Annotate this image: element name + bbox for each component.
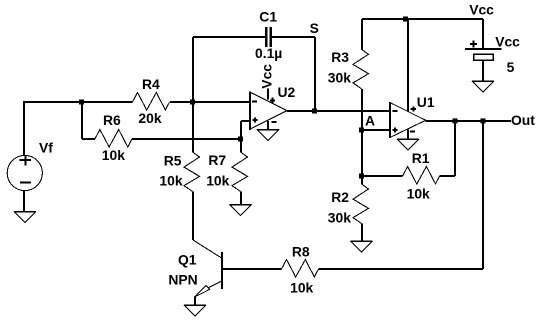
wire <box>23 102 25 156</box>
wire <box>440 121 455 176</box>
capacitor C1 <box>266 27 271 47</box>
ground <box>14 212 36 223</box>
wire <box>271 36 315 38</box>
ground <box>184 305 206 316</box>
wire <box>23 191 25 212</box>
battery V1 Vcc <box>465 48 502 50</box>
svg-text:10k: 10k <box>159 172 182 188</box>
svg-text:Vf: Vf <box>39 140 53 156</box>
wire <box>194 297 196 305</box>
transistor Q1 <box>221 252 223 289</box>
wire <box>82 138 95 140</box>
svg-text:30k: 30k <box>328 70 351 86</box>
wire <box>407 19 409 112</box>
wire <box>267 89 269 100</box>
wire <box>81 102 83 139</box>
wire <box>287 110 390 112</box>
wire <box>426 120 511 122</box>
wire <box>240 139 242 205</box>
wire <box>319 268 484 270</box>
node junction <box>453 118 458 123</box>
resistor R1 <box>403 167 440 185</box>
node junction <box>312 109 317 114</box>
wire <box>208 281 222 288</box>
svg-text:Vcc: Vcc <box>469 1 494 17</box>
wire <box>407 130 409 140</box>
svg-text:C1: C1 <box>259 8 277 24</box>
svg-text:10k: 10k <box>102 147 125 163</box>
svg-text:10k: 10k <box>206 172 229 188</box>
svg-text:R4: R4 <box>142 76 160 92</box>
wire <box>361 224 363 242</box>
wire <box>193 36 266 38</box>
svg-text:Vcc: Vcc <box>495 33 520 49</box>
resistor R7 <box>232 152 248 192</box>
wire <box>192 37 194 152</box>
node junction <box>359 128 364 133</box>
svg-text:Out: Out <box>511 112 535 128</box>
op-amp U1 <box>390 102 426 137</box>
svg-text:R7: R7 <box>208 152 226 168</box>
node junction <box>481 118 486 123</box>
svg-text:R2: R2 <box>331 189 349 205</box>
wire <box>192 192 194 241</box>
svg-text:0.1µ: 0.1µ <box>255 45 282 61</box>
ground <box>230 205 252 216</box>
node junction <box>403 17 408 22</box>
wire <box>241 121 250 139</box>
svg-text:Vcc: Vcc <box>259 64 275 89</box>
svg-text:S: S <box>310 20 319 36</box>
voltage source Vf <box>7 155 42 190</box>
svg-text:R5: R5 <box>164 152 182 168</box>
wire <box>361 89 363 184</box>
svg-text:R3: R3 <box>331 49 349 65</box>
wire <box>482 121 484 269</box>
svg-text:U2: U2 <box>278 84 296 100</box>
resistor R5 <box>184 152 200 192</box>
svg-text:20k: 20k <box>138 110 161 126</box>
ground <box>397 139 419 150</box>
svg-text:A: A <box>365 113 375 129</box>
node junction <box>238 137 243 142</box>
svg-text:10k: 10k <box>407 185 430 201</box>
emitter arrow <box>194 286 210 298</box>
wire <box>362 18 483 20</box>
wire <box>222 268 282 270</box>
svg-text:R8: R8 <box>292 244 310 260</box>
svg-text:NPN: NPN <box>168 272 197 288</box>
ground <box>472 81 494 92</box>
node junction <box>79 100 84 105</box>
wire <box>361 19 363 49</box>
wire <box>23 101 133 103</box>
resistor R2 <box>353 184 369 224</box>
svg-text:30k: 30k <box>328 210 351 226</box>
svg-text:R6: R6 <box>103 112 121 128</box>
ground <box>257 130 279 141</box>
svg-text:10k: 10k <box>290 279 313 295</box>
svg-text:5: 5 <box>507 59 515 75</box>
node junction <box>190 100 195 105</box>
svg-text:Q1: Q1 <box>178 251 197 267</box>
wire <box>362 175 403 177</box>
resistor R6 <box>95 130 132 148</box>
wire <box>193 240 222 258</box>
ground <box>351 241 373 252</box>
wire <box>482 19 484 49</box>
svg-text:U1: U1 <box>417 94 435 110</box>
svg-text:R1: R1 <box>412 150 430 166</box>
wire <box>267 121 269 130</box>
wire <box>132 138 241 140</box>
wire <box>170 101 251 103</box>
op-amp U2 <box>250 92 288 129</box>
resistor R3 <box>353 49 369 89</box>
wire <box>314 37 316 111</box>
resistor R4 <box>133 93 170 111</box>
node junction <box>359 174 364 179</box>
wire <box>482 60 484 81</box>
wire <box>362 129 390 131</box>
resistor R8 <box>282 260 319 278</box>
